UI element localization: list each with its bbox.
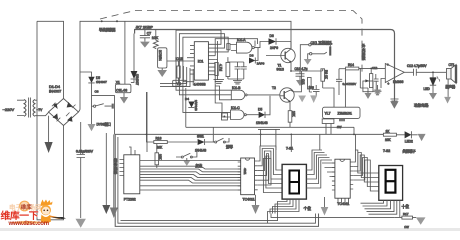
T2 emitter w arrow <box>284 97 290 111</box>
cap C12 output <box>414 69 430 76</box>
jack sleeve bar <box>329 46 331 55</box>
svg-text:10K: 10K <box>385 138 392 142</box>
wire cap to R14 <box>339 68 346 70</box>
cap C vert right of R13 <box>374 74 379 91</box>
riser to bottom ground arrow <box>105 133 107 205</box>
crystal Y1 box <box>173 80 187 86</box>
svg-text:2CW54: 2CW54 <box>158 50 162 61</box>
ground under zener pack <box>161 68 163 70</box>
svg-text:0.047/25V: 0.047/25V <box>343 82 357 86</box>
LED D9 <box>405 131 412 138</box>
encoder IC4 box <box>124 155 140 194</box>
svg-text:7-S1: 7-S1 <box>286 147 293 151</box>
gate B bubble <box>245 94 247 96</box>
DS2 digit 8 <box>386 170 396 193</box>
ground bus line <box>271 214 395 218</box>
cap C14 <box>336 69 342 95</box>
wire R14 to opamp <box>359 67 386 69</box>
junction dots amp <box>290 70 292 72</box>
riser x322 <box>319 134 321 150</box>
svg-text:C7: C7 <box>147 32 151 36</box>
IC6 left pins <box>332 163 335 190</box>
ground under IC6 left <box>324 197 326 207</box>
resistor R17 box <box>402 216 413 219</box>
svg-text:R16: R16 <box>156 136 162 140</box>
svg-text:0.01μ/630V: 0.01μ/630V <box>76 150 94 154</box>
resistor R13 vertical <box>370 74 373 88</box>
bus top to gate A <box>215 39 257 56</box>
IC4 top wire <box>129 147 135 155</box>
riser x291 <box>290 134 292 152</box>
top +V rail wire A <box>79 21 292 112</box>
wire loop transformer to bridge top <box>37 21 64 98</box>
ground hatch osc <box>233 81 242 84</box>
cap C8 <box>235 62 241 74</box>
wires 220V to transformer <box>17 100 24 115</box>
svg-text:1N4148: 1N4148 <box>256 121 268 125</box>
svg-text:功放电路: 功放电路 <box>414 103 429 108</box>
wire junction to bottom box <box>92 96 115 135</box>
long wire y127.3 <box>186 126 354 128</box>
nand gate IC1-A <box>237 42 253 53</box>
wire to LED <box>396 134 404 136</box>
small resistor top right of IC1 <box>227 44 230 50</box>
svg-text:10μ: 10μ <box>309 86 315 90</box>
svg-text:LED: LED <box>424 87 431 91</box>
resistor R8 vertical <box>321 69 325 81</box>
T2 collector <box>284 71 301 93</box>
svg-text:10K: 10K <box>152 36 159 40</box>
cap C13 + near IC2 <box>313 85 320 95</box>
small diode arrow <box>365 79 369 82</box>
svg-text:~7V: ~7V <box>37 108 44 112</box>
svg-text:1W: 1W <box>404 225 409 229</box>
switch S2 reset <box>181 156 183 158</box>
gate C output to diode D6b <box>246 114 258 116</box>
nested bus verticals to gates <box>215 63 231 117</box>
svg-text:TC4011: TC4011 <box>243 198 255 202</box>
svg-text:4011: 4011 <box>243 168 247 175</box>
svg-text:清零: 清零 <box>226 144 233 149</box>
bridge rectifier D1-D4 diamond <box>49 99 79 126</box>
ground under C10 <box>296 80 304 86</box>
svg-text:D6: D6 <box>250 54 254 58</box>
IC6 input wires from DS1 risers <box>322 163 335 181</box>
ground under jack <box>304 59 312 65</box>
svg-text:~220V: ~220V <box>3 107 15 112</box>
IC5 right pins <box>255 161 258 190</box>
svg-text:R8 1K: R8 1K <box>324 70 328 80</box>
ground right of T2 <box>298 96 306 103</box>
opamp output wire <box>404 71 413 73</box>
riser x360.3 <box>355 134 357 150</box>
smoothing cap 0.01/630V <box>77 122 86 218</box>
wire R9 bottom to rail <box>289 122 291 127</box>
wire R17 to ground <box>395 216 416 218</box>
music IC2 box <box>323 107 361 118</box>
watermark logo seal circle <box>19 201 30 212</box>
svg-text:4.7M: 4.7M <box>219 64 223 71</box>
vertical resistor R15 <box>155 153 159 165</box>
ground under C13 <box>310 95 317 103</box>
bridge diode 2 <box>67 102 73 108</box>
wire D7 to S1 <box>205 141 215 143</box>
resistor 10K zigzag <box>153 30 158 49</box>
svg-text:外壳屏蔽: 外壳屏蔽 <box>361 43 366 60</box>
ground under speaker <box>444 97 451 104</box>
riser x275.9 to rail <box>275 129 277 150</box>
transformer T primary coil <box>24 100 26 117</box>
ground hatch amp network <box>374 91 382 95</box>
DS2 bottom pins loops <box>361 200 400 217</box>
svg-text:IN4007: IN4007 <box>49 90 61 94</box>
speaker return wire <box>447 79 449 97</box>
IC1 left pins <box>187 45 194 74</box>
wire riser to X1 <box>124 21 126 84</box>
wire R13 <box>370 68 372 73</box>
resistor R6 vertical left of IC1 <box>177 66 180 78</box>
diode D6b <box>259 112 265 118</box>
transformer core <box>29 98 31 118</box>
bus vertical right long <box>215 41 217 80</box>
svg-text:PT2262: PT2262 <box>124 198 136 202</box>
svg-text:共阴端子: 共阴端子 <box>403 149 417 154</box>
svg-text:SW1: SW1 <box>197 134 204 138</box>
svg-text:维库: 维库 <box>21 203 33 211</box>
IC1 left bus bends below <box>160 66 196 87</box>
jumper box JP <box>222 113 228 120</box>
ground hollow under D5 line <box>88 124 96 131</box>
wire riser x360 <box>359 68 361 88</box>
cap C11 vertical box <box>308 78 312 90</box>
diode D7 <box>198 139 205 145</box>
T1 emitter w arrow <box>285 58 291 72</box>
resistor Rj 1K box <box>383 133 396 136</box>
zener pack box vertical <box>158 48 167 68</box>
wire C11 R8 to music IC <box>309 88 334 107</box>
svg-text:JK7 2K/BP: JK7 2K/BP <box>136 25 154 29</box>
ground hatch under IC1 pin7 <box>214 80 225 84</box>
under DS1 bus loops <box>121 199 300 223</box>
wire secondary bottom to bridge <box>35 112 49 115</box>
svg-text:扬声器: 扬声器 <box>446 84 456 89</box>
wire IC2 top to amp <box>344 70 346 107</box>
junction dots bottom <box>114 163 116 165</box>
IC2 pin bar right <box>339 119 345 121</box>
IC6 notch <box>340 159 344 161</box>
switch row riser joints <box>147 92 154 142</box>
bridge diode 3 <box>53 113 59 119</box>
svg-text:www.dzsc.com: www.dzsc.com <box>8 221 49 227</box>
IC4 right pins bus <box>140 161 241 191</box>
svg-text:编码选择: 编码选择 <box>113 157 117 174</box>
ground big mid <box>393 99 395 101</box>
opamp inv input wire <box>381 79 385 89</box>
svg-text:R17: R17 <box>403 212 409 216</box>
gate A bubble <box>252 47 254 49</box>
DS1 right pins to IC6 <box>306 150 332 188</box>
shield box top edge + right side <box>135 30 395 100</box>
wire R15 <box>156 144 158 169</box>
resistor R14 horizontal <box>346 67 359 70</box>
LED emission arrows <box>437 77 440 82</box>
switch K1 <box>92 105 94 107</box>
svg-text:10K: 10K <box>158 154 162 161</box>
T1 base bar <box>284 52 286 60</box>
resistor R16 box <box>154 141 168 144</box>
svg-text:2AP9: 2AP9 <box>257 62 265 66</box>
wire +V branch jog to D5 line <box>80 72 92 77</box>
node dot on rail <box>101 20 103 22</box>
ground right bottom <box>416 217 426 224</box>
counter IC5 TC4011 box <box>241 158 255 195</box>
IC6 right pins <box>350 162 353 189</box>
zener D8 at output <box>429 72 446 77</box>
speaker magnet <box>455 65 457 83</box>
IC6 bottom pin stubs <box>338 198 349 202</box>
svg-text:C6: C6 <box>95 90 99 94</box>
T2 base wire <box>280 95 284 97</box>
watermark www.dzsc.com <box>8 221 46 224</box>
wire IC2 to rail <box>326 124 354 135</box>
svg-text:10K: 10K <box>292 111 296 118</box>
gate A inputs <box>230 45 237 51</box>
wire R8 top/bottom <box>322 69 324 88</box>
svg-text:2W: 2W <box>337 125 342 129</box>
nand gate IC1-B <box>231 90 245 100</box>
counter IC6 TC4011 box <box>335 159 350 198</box>
wire zener to ground <box>432 85 434 93</box>
svg-text:DY08插口: DY08插口 <box>97 122 111 127</box>
opamp LM386 triangle <box>385 64 404 83</box>
op-amp IC1 box <box>194 42 208 80</box>
svg-text:十位: 十位 <box>402 204 410 209</box>
speaker YD <box>447 69 452 80</box>
transistor T1 circle <box>281 48 295 62</box>
svg-text:CK1 耳机插孔: CK1 耳机插孔 <box>311 40 333 45</box>
gate C bubble <box>244 114 246 116</box>
IC5 notch <box>245 158 249 160</box>
transistor T2 circle <box>280 88 294 102</box>
bottom section inner box <box>118 137 316 223</box>
X1 connector box <box>115 84 130 93</box>
node dot on rail 2 <box>116 20 118 22</box>
osc cluster wires <box>228 57 244 79</box>
K1 bar <box>112 104 114 109</box>
shield dashed line top <box>100 11 362 75</box>
ground LED <box>418 134 426 141</box>
svg-text:1N4007: 1N4007 <box>96 80 107 84</box>
diode D4 vertical <box>185 88 187 127</box>
display DS1 bus loops left <box>258 146 282 193</box>
svg-text:R14: R14 <box>348 63 354 67</box>
svg-text:个位: 个位 <box>304 206 312 211</box>
svg-text:IC1-B: IC1-B <box>232 86 241 90</box>
svg-text:C10 4.7μ: C10 4.7μ <box>295 67 308 71</box>
svg-text:D1-D4: D1-D4 <box>49 85 60 89</box>
cap C10 <box>296 71 305 80</box>
bridge diode 4 <box>67 116 73 122</box>
ground under X1 <box>123 93 125 97</box>
gate B output wire to T2 base <box>247 94 280 96</box>
bridge diode 1 <box>53 103 58 109</box>
svg-text:导线屏蔽层: 导线屏蔽层 <box>99 27 116 32</box>
svg-text:2AP348: 2AP348 <box>194 100 198 111</box>
cap C7 <box>140 30 150 42</box>
wire transformer secondary down-left long <box>37 21 64 220</box>
diode D6a <box>269 38 277 44</box>
wire secondary top to rail riser <box>35 99 37 101</box>
riser to bottom switch row <box>146 92 148 152</box>
wire R16 to D7 <box>167 141 197 143</box>
nand gate IC1-C <box>231 110 245 120</box>
svg-text:CSL-08: CSL-08 <box>116 88 127 92</box>
svg-text:D6: D6 <box>270 34 274 38</box>
riser to S1 <box>213 127 214 142</box>
resistor R9 vertical <box>288 111 292 123</box>
bottom section outer box <box>115 134 383 226</box>
diode D6c under gate A <box>249 58 255 64</box>
svg-text:10K: 10K <box>157 146 164 150</box>
svg-text:X1: X1 <box>116 80 120 84</box>
cap C9 <box>241 62 247 74</box>
T1 base wire <box>266 55 285 57</box>
svg-text:D4: D4 <box>185 97 189 101</box>
diode D5 vertical <box>88 77 94 83</box>
big bus loop 1 <box>176 30 231 90</box>
diode DZ vertical near X1 <box>133 34 135 72</box>
svg-text:7-S2: 7-S2 <box>383 149 390 153</box>
big bus loop 3 <box>183 37 231 112</box>
T1 collector <box>285 42 291 54</box>
svg-text:D5: D5 <box>258 107 262 111</box>
big bus loop 2 <box>179 34 231 95</box>
ground under C7 <box>140 42 150 48</box>
T2 base bar <box>283 91 285 99</box>
IC5 left pins <box>238 162 241 190</box>
svg-text:C12 4.7μ/50V: C12 4.7μ/50V <box>407 64 427 68</box>
resistor R5 vertical <box>215 63 218 76</box>
IC1 right pins <box>208 44 215 74</box>
display DS2 bus loops left <box>353 150 379 191</box>
ground left bottom section <box>113 134 115 207</box>
svg-text:IC1-A: IC1-A <box>237 38 246 42</box>
7-seg display DS1 <box>282 164 306 199</box>
gate A output to diode D6a <box>254 42 268 48</box>
short bus y129.4 <box>258 128 280 130</box>
riser x260 to rail <box>260 129 262 146</box>
svg-text:TC4011: TC4011 <box>337 202 349 206</box>
emitter node wire <box>291 70 323 72</box>
svg-text:Y.1: Y.1 <box>177 82 182 86</box>
headphone jack CK1 <box>300 44 330 72</box>
svg-text:IC1: IC1 <box>198 60 204 64</box>
watermark mascot monkey <box>41 200 67 224</box>
transformer T secondary coil <box>33 100 35 117</box>
svg-text:Z3M3101: Z3M3101 <box>338 112 352 116</box>
resistor R7 vertical <box>226 63 230 77</box>
wire into IC1E pin <box>167 60 194 62</box>
svg-text:9013: 9013 <box>277 67 285 71</box>
svg-text:LED2: LED2 <box>405 140 413 144</box>
wire R6 <box>178 61 180 83</box>
scan artifact gray band bottom <box>0 228 460 231</box>
7-seg display DS2 <box>379 166 403 201</box>
svg-text:IC1-C: IC1-C <box>231 106 240 110</box>
ground arrow under riser filled <box>102 205 110 214</box>
IC2 bottom pin block <box>322 119 334 124</box>
svg-text:YL7: YL7 <box>325 112 331 116</box>
svg-text:1N4148: 1N4148 <box>195 148 206 152</box>
ground shield box hatched <box>391 99 399 103</box>
ground hollow under cap <box>76 219 86 228</box>
ground arrow left filled <box>48 116 50 142</box>
svg-text:CT1: CT1 <box>449 63 455 67</box>
grounds row mid right <box>365 93 372 99</box>
svg-text:C12: C12 <box>372 66 378 70</box>
ground under zener <box>429 93 437 100</box>
ground under S2 <box>183 161 190 166</box>
DS1 digit 8 <box>290 171 300 194</box>
ground under IC5 <box>255 195 257 205</box>
relay box amp network <box>363 81 373 92</box>
IC4 left pins <box>120 160 124 176</box>
svg-text:1N4007: 1N4007 <box>135 74 139 85</box>
svg-text:LM386: LM386 <box>393 80 403 84</box>
switch S1 <box>215 141 217 143</box>
svg-text:T2: T2 <box>272 86 276 90</box>
svg-text:2AP9: 2AP9 <box>270 46 278 50</box>
